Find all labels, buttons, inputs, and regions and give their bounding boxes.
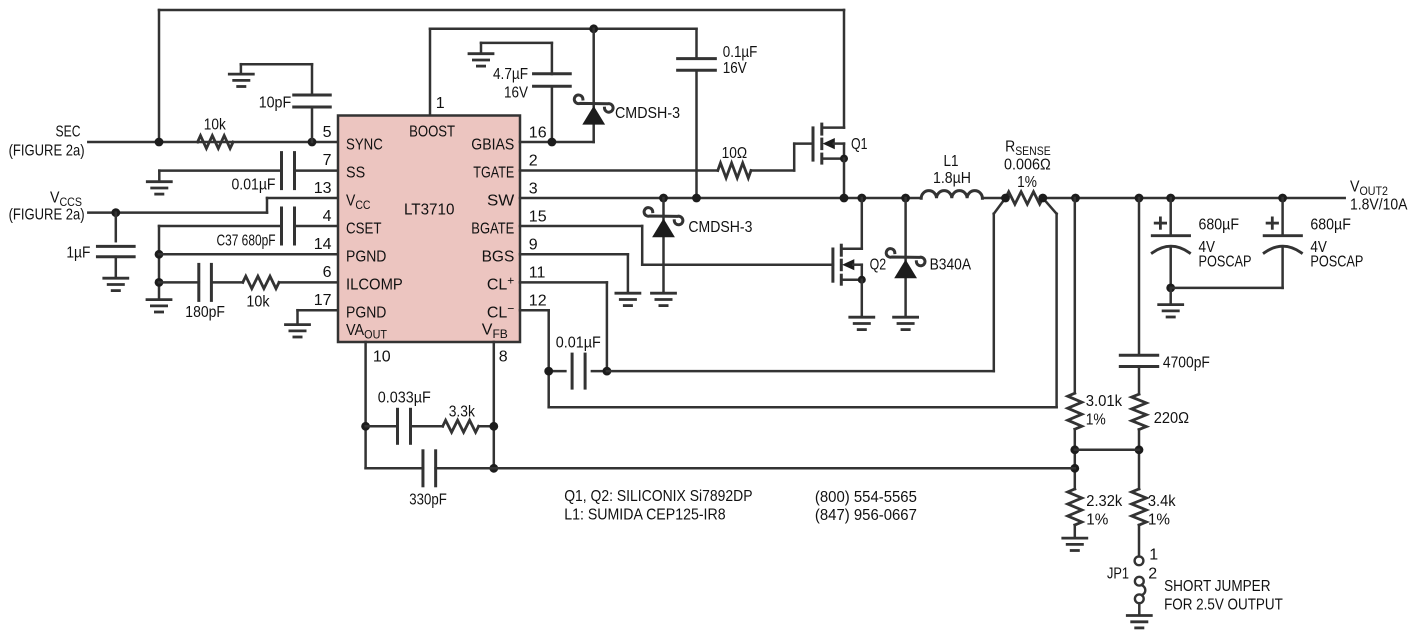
svg-text:GBIAS: GBIAS [471,136,514,153]
svg-text:180pF: 180pF [185,304,225,321]
svg-text:B340A: B340A [930,257,972,274]
svg-text:14: 14 [314,236,332,253]
label 0.01uF SS [232,176,276,193]
svg-text:TGATE: TGATE [473,164,514,181]
label 1% 2.32k [1086,512,1108,529]
resistor R 10k SYNC [198,136,234,149]
note phone 2 [815,507,917,524]
svg-text:(FIGURE 2a): (FIGURE 2a) [9,206,85,223]
svg-text:SW: SW [487,192,515,209]
node SW-0.1uF junction [692,194,701,203]
svg-text:VOUT2: VOUT2 [1350,179,1388,199]
capacitor 0.1uF [678,29,716,198]
svg-text:1µF: 1µF [66,245,90,262]
label 4V 1 [1199,239,1216,256]
node PGND14 junction [155,250,164,259]
capacitor 10pF [241,64,330,142]
label C37 680pF [217,232,276,249]
label L1 [944,153,959,170]
label RSENSE [1005,138,1051,158]
svg-text:16: 16 [529,125,547,142]
capacitor C-out2 680uF POSCAP [1264,198,1301,288]
pin number 1 [436,95,445,112]
ground 2.32k [1063,525,1087,551]
svg-text:(800) 554-5565: (800) 554-5565 [815,489,917,506]
label 3.01k [1086,393,1123,410]
svg-text:SEC: SEC [56,124,81,141]
label 1% 3.01k [1086,411,1106,428]
pin number 9 [529,237,538,254]
svg-text:(FIGURE 2a): (FIGURE 2a) [9,143,85,160]
label CMDSH-3 lower [688,219,752,236]
pin number 13 [314,180,332,197]
wire VCCS to VCC [88,198,338,213]
svg-text:4.7µF: 4.7µF [493,66,528,83]
svg-text:Q2: Q2 [870,257,887,274]
pin name VAOUT [346,322,388,342]
wire GBIAS [520,141,594,144]
wire feedback long [366,467,1075,470]
node SW-B340A junction [901,194,910,203]
label B340A [930,257,972,274]
label 4V 2 [1310,239,1327,256]
ground SS [147,171,171,195]
wire SS [159,169,338,172]
svg-text:Q1: Q1 [851,136,868,153]
svg-text:FOR 2.5V OUTPUT: FOR 2.5V OUTPUT [1164,597,1283,614]
svg-text:CMDSH-3: CMDSH-3 [615,105,680,122]
svg-text:CMDSH-3: CMDSH-3 [688,219,752,236]
svg-text:330pF: 330pF [409,491,447,508]
pin name VFB [482,322,508,342]
svg-text:7: 7 [323,152,332,169]
node SEC-toprail junction [155,138,164,147]
label Q2 [870,257,887,274]
svg-text:L1: SUMIDA CEP125-IR8: L1: SUMIDA CEP125-IR8 [564,507,725,524]
wire ILCOMP [159,281,338,284]
resistor 10k ILCOMP [243,276,279,288]
node SW-CMDSH junction [659,194,668,203]
capacitor 0.01uF CL [549,354,607,388]
wire divider cross [1075,449,1139,452]
svg-text:10: 10 [373,348,391,365]
wire SW rail [520,197,1345,200]
label 180pF [185,304,225,321]
svg-text:CSET: CSET [346,220,382,237]
node divider cross right [1135,445,1144,454]
label 10pF [259,94,292,111]
label 16V 0.1uF [723,60,747,77]
label 680uF 2 [1310,217,1351,234]
wire left vertical gnd bus [158,226,161,298]
ground 1uF [104,278,128,290]
capacitor C37 680pF [282,208,295,244]
pin number 10 [373,348,391,365]
note Q1 Q2 siliconix [564,488,752,505]
svg-text:PGND: PGND [346,248,386,265]
ground JP1 [1127,616,1151,628]
label 4700pF [1163,355,1210,372]
label 3.4k [1148,493,1177,510]
label 680uF 1 [1199,217,1240,234]
svg-text:3.3k: 3.3k [449,403,476,420]
pin number 14 [314,236,332,253]
diode CMDSH-3 top [574,29,613,142]
capacitor 4.7uF [481,43,570,142]
node ILCOMP junction [155,278,164,287]
svg-text:3.4k: 3.4k [1148,493,1177,510]
node VOUT divider junction [1071,194,1080,203]
svg-text:L1: L1 [944,153,959,170]
wire PGND17 [298,310,339,323]
label CMDSH-3 top [615,105,680,122]
svg-text:PGND: PGND [346,304,386,321]
resistor 3.4k [1132,489,1147,525]
svg-text:1.8V/10A: 1.8V/10A [1350,197,1408,214]
svg-text:1.8µH: 1.8µH [933,170,971,187]
ground BGS [616,293,640,305]
svg-text:SYNC: SYNC [346,136,383,153]
label 16V 4.7uF [504,85,528,102]
wire 4700pF to 220 [1138,367,1141,395]
svg-text:10pF: 10pF [259,94,292,111]
pin number 16 [529,125,547,142]
capacitor 0.01uF SS [282,153,295,189]
pin name BOOST [409,124,455,141]
label 0.033uF [378,389,431,406]
svg-text:POSCAP: POSCAP [1199,253,1252,270]
pin name VCC [346,192,371,212]
pin name CSET [346,220,382,237]
wire divider left mid [1074,429,1077,489]
ground PGND17 [286,325,310,337]
pin name TGATE [473,164,514,181]
wire top rail [159,10,844,142]
label 220 ohm [1154,410,1189,427]
svg-text:1%: 1% [1017,174,1037,191]
pin name ILCOMP [346,276,403,293]
node divider fb left [1070,464,1079,473]
label Q1 [851,136,868,153]
pin number 5 [323,124,332,141]
pin name SS [346,164,365,181]
node POSCAP1 bottom junction [1166,284,1175,293]
wire divider left [1074,198,1077,393]
pin number 15 [529,209,547,226]
node 0.01uF right junction [603,367,612,376]
node divider cross left [1070,445,1079,454]
pin name BGATE [471,220,514,237]
label short jumper line2 [1164,597,1283,614]
capacitor 4700pF [1120,355,1157,366]
svg-text:RSENSE: RSENSE [1005,138,1051,158]
op-amp U1 LT3710 body [338,116,520,343]
pin number 7 [323,152,332,169]
svg-text:1: 1 [1149,546,1158,563]
wire BGS [520,254,628,292]
node 0.01uF left junction [544,367,553,376]
ground 10pF [229,74,253,86]
pin name CL+ [487,273,514,293]
label 10k SYNC [204,117,227,134]
label 1% RSENSE [1017,174,1037,191]
svg-text:16V: 16V [723,60,747,77]
pin name PGND-14 [346,248,386,265]
pin number 3 [529,181,538,198]
resistor 3.01k [1068,393,1082,429]
svg-text:4: 4 [323,208,332,225]
node SYNC-10pF junction [308,138,317,147]
wire PGND14 [159,253,338,256]
net label VOUT2 [1350,179,1388,199]
svg-text:BGS: BGS [482,248,515,265]
label POSCAP 1 [1199,253,1252,270]
pin number 6 [323,264,332,281]
svg-text:SS: SS [346,164,365,181]
svg-text:2: 2 [1148,566,1157,583]
svg-text:10k: 10k [204,117,227,134]
label 2.32k [1086,493,1123,510]
wire kelvin right [549,198,1057,407]
label 330pF [409,491,447,508]
label 1.8V/10A [1350,197,1408,214]
pin number 11 [529,265,546,282]
ground POSCAP1 [1159,288,1183,317]
svg-text:C37 680pF: C37 680pF [217,232,276,249]
svg-text:2.32k: 2.32k [1086,493,1123,510]
svg-text:6: 6 [323,264,332,281]
pin name CL- [487,301,514,321]
node RSENSE right [1038,194,1047,203]
pin number JP1-1 [1149,546,1158,563]
net label SEC [56,124,81,141]
pin number 4 [323,208,332,225]
wire SEC to SYNC [88,141,338,144]
label 0.01uF CL [556,335,601,352]
transistor Q1 [813,124,848,198]
svg-text:13: 13 [314,180,332,197]
svg-text:3: 3 [529,181,538,198]
svg-text:POSCAP: POSCAP [1310,253,1363,270]
node VOUT 4700pF junction [1135,194,1144,203]
svg-text:BOOST: BOOST [409,124,455,141]
ground 4.7uF [469,54,493,66]
svg-text:17: 17 [314,292,332,309]
net label VCCS [50,190,82,210]
svg-text:5: 5 [323,124,332,141]
svg-text:680µF: 680µF [1310,217,1351,234]
wire 4700pF branch [1138,198,1141,354]
capacitor 180pF [199,264,212,300]
svg-text:16V: 16V [504,85,528,102]
label 1% 3.4k [1148,512,1170,529]
pin name SYNC [346,136,383,153]
svg-text:2: 2 [529,153,538,170]
svg-text:12: 12 [529,293,547,310]
svg-text:0.006Ω: 0.006Ω [1004,157,1051,174]
wire BGATE [520,226,833,265]
svg-text:0.01µF: 0.01µF [556,335,601,352]
node BOOST-diode junction [589,24,598,33]
label 1uF [66,245,90,262]
svg-text:11: 11 [529,265,546,282]
label 0.006 ohm [1004,157,1051,174]
label 1.8uH [933,170,971,187]
wire POSCAP bottoms [1171,287,1283,290]
capacitor 0.033uF [398,409,411,443]
wire comp row [366,425,494,428]
svg-text:1: 1 [436,95,445,112]
node VFB fb junction [489,464,498,473]
resistor RSENSE [1006,192,1043,204]
svg-text:SHORT JUMPER: SHORT JUMPER [1164,578,1270,595]
wire TGATE [520,144,813,171]
wire CSET [159,225,338,228]
wire CL- [520,310,549,407]
svg-text:(847) 956-0667: (847) 956-0667 [815,507,917,524]
node VAOUT comp junction [361,422,370,431]
label 10 ohm [722,145,748,162]
svg-text:15: 15 [529,209,547,226]
node RSENSE left [1001,194,1010,203]
svg-text:4700pF: 4700pF [1163,355,1210,372]
svg-text:0.1µF: 0.1µF [723,44,758,61]
svg-text:BGATE: BGATE [471,220,514,237]
svg-text:ILCOMP: ILCOMP [346,276,403,293]
wire BOOST pin 1 [430,29,697,116]
node VFB comp junction [489,422,498,431]
ground CMDSH-3 lower [652,293,676,305]
svg-text:9: 9 [529,237,538,254]
label 10k ILCOMP [246,293,270,310]
resistor 3.3k [443,420,479,432]
svg-text:Q1, Q2: SILICONIX Si7892DP: Q1, Q2: SILICONIX Si7892DP [564,488,752,505]
resistor 10 ohm [718,163,751,178]
svg-text:220Ω: 220Ω [1154,410,1189,427]
wire VAOUT pin10 [364,342,367,468]
svg-text:0.033µF: 0.033µF [378,389,431,406]
diode CMDSH-3 lower [644,198,683,292]
label JP1 [1107,566,1129,583]
resistor 220 ohm [1132,394,1147,429]
svg-text:1%: 1% [1148,512,1170,529]
net label SEC figure [9,143,85,160]
node VOUT cap1 junction [1166,194,1175,203]
svg-text:10Ω: 10Ω [722,145,748,162]
net label VCCS figure [9,206,85,223]
svg-text:680µF: 680µF [1199,217,1240,234]
svg-text:0.01µF: 0.01µF [232,176,276,193]
svg-text:8: 8 [499,348,508,365]
node GBIAS-4.7uF junction [548,138,557,147]
node SW-Q1 junction [840,194,849,203]
ground B340A [894,317,918,329]
label 3.3k [449,403,476,420]
label short jumper line1 [1164,578,1270,595]
svg-text:JP1: JP1 [1107,566,1129,583]
pin name SW [487,192,515,209]
wire CL+ [520,282,607,371]
svg-text:3.01k: 3.01k [1086,393,1123,410]
resistor 2.32k [1068,489,1082,525]
pin number 2 [529,153,538,170]
svg-text:10k: 10k [246,293,270,310]
wire VFB pin8 [493,342,496,468]
note L1 sumida [564,507,725,524]
node SW-Q2 junction [857,194,866,203]
pin number 8 [499,348,508,365]
label LT3710 [404,201,455,218]
jumper JP1 [1135,525,1146,615]
capacitor 1uF [97,213,134,278]
diode B340A [886,198,925,316]
svg-text:LT3710: LT3710 [404,201,455,218]
pin name GBIAS [471,136,514,153]
inductor L1 [921,191,982,199]
node VCCS-1uF junction [111,208,120,217]
ground Q2 [850,317,874,329]
label 0.1uF [723,44,758,61]
wire kelvin left [607,198,1006,371]
pin name BGS [482,248,515,265]
capacitor C-out1 680uF POSCAP [1152,198,1189,288]
label POSCAP 2 [1310,253,1363,270]
svg-text:1%: 1% [1086,512,1108,529]
label 4.7uF [493,66,528,83]
pin number JP1-2 [1148,566,1157,583]
wire 220 to 3.4k [1138,430,1141,490]
pin number 17 [314,292,332,309]
capacitor 330pF [423,451,436,486]
pin number 12 [529,293,547,310]
svg-text:1%: 1% [1086,411,1106,428]
ground CSET bus [147,300,171,312]
note phone 1 [815,489,917,506]
transistor Q2 [833,198,866,316]
node VOUT cap2 junction [1278,194,1287,203]
pin name PGND-17 [346,304,386,321]
